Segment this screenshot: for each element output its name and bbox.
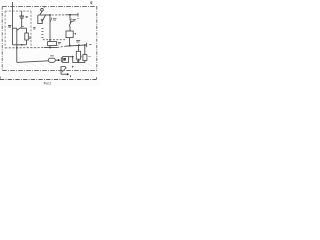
node (dot x=69.8 on bus) <box>69 45 71 47</box>
wire (vertical x=16.8) <box>16 28 18 44</box>
label a (near switch S1) <box>22 26 24 28</box>
main bus line (solid right portion) <box>66 45 87 46</box>
lower dash-dot rule (second figure edge) <box>0 79 96 81</box>
label right of tick <box>89 44 91 46</box>
node (dot x=84.8 on bus) <box>84 44 86 46</box>
terminal tick (x=78) <box>77 13 79 17</box>
wire (x=70 into relay box) <box>69 26 71 31</box>
wire (mic to node) <box>55 59 58 61</box>
wire (top, y=15 to node) <box>38 14 50 16</box>
wire (vertical x=50 down to box) <box>49 15 51 41</box>
label 2b.1 text <box>72 20 75 21</box>
label b2 (right of blade K2) <box>72 21 74 23</box>
main bus line (solid under box 24a) <box>44 46 57 48</box>
label 1b2 (left of linkage) <box>33 28 35 29</box>
wire (x=72.7 down) <box>72 57 74 63</box>
capacitor curved plate <box>60 57 63 62</box>
bottom wire (sloped, from x=16.8 corner to mic) <box>17 61 49 63</box>
microphone top marks <box>50 55 53 57</box>
resistor R1 body <box>25 33 29 40</box>
earpiece box body <box>63 57 69 63</box>
capacitor C1 lead <box>21 11 23 16</box>
terminal tick right (x=86.7) <box>86 43 88 48</box>
wire (earpiece to node, y=56.7) <box>69 56 73 58</box>
border right (dash-dot) <box>96 7 98 71</box>
switch blade K2 (vertical branch x=70) <box>69 15 71 20</box>
box 24a body <box>48 42 57 46</box>
node (dot x=72.7 y=56.7) <box>72 56 74 58</box>
label 2a text <box>53 19 57 20</box>
node B (dot x=70 y=14.8) <box>69 14 71 16</box>
contact K1 circle (top middle) <box>41 8 44 11</box>
relay box right mark <box>74 33 76 35</box>
linkage line (dashed horizontal y=39.6) <box>43 39 66 41</box>
label a.1 (near tick) <box>77 17 79 19</box>
relay coil box 2 body <box>66 31 73 38</box>
border top (dash-dot) <box>2 6 97 8</box>
label 1a (right of capacitor) <box>26 16 28 17</box>
node (dot x=78.8 on bus) <box>78 44 80 46</box>
border bottom (dash-dot) <box>2 69 97 71</box>
switch blade S1 <box>17 28 21 31</box>
capacitor C1 lower lead <box>21 19 23 28</box>
switch blade K1 <box>40 11 42 15</box>
transistor Q1 body frame <box>38 15 42 24</box>
svg-text:Фиг.2: Фиг.2 <box>44 82 52 86</box>
linkage line (dashed vertical x=42.3) <box>41 29 43 38</box>
figure label top-right <box>90 2 92 4</box>
label 2b.1 (above right wire) <box>76 41 80 42</box>
bottom bus right (y=62.6) <box>73 62 85 64</box>
label 10 (right of resistor R1) <box>29 37 31 38</box>
node (dot at x=50 y=39.7 linkage crossing) <box>49 39 51 41</box>
main bus line (dashed left portion) <box>5 47 44 49</box>
left edge mark <box>0 77 1 79</box>
dashed enclosure 1 (left inner box) <box>5 10 31 12</box>
resistor R2 top lead <box>78 45 80 51</box>
border left (dash-dot) <box>1 7 3 71</box>
label b (above contact K1) <box>43 6 45 8</box>
resistor R1 bottom lead <box>26 40 28 45</box>
label 1c (inside Q1 frame) <box>41 19 43 20</box>
box 24a stub to bus <box>49 46 51 48</box>
wire (x=16.8 down to bottom wire) <box>16 45 18 63</box>
wire (bottom of left cell, y=44.8) <box>13 44 27 46</box>
capacitor C1 plates <box>19 15 24 17</box>
wire (solid, to right tick) <box>65 14 78 16</box>
label below R2 <box>77 60 80 61</box>
handwritten mark (bottom right of figure) <box>61 67 66 75</box>
wire (dashed, y=14.9) <box>52 14 66 16</box>
resistor R1 top lead <box>26 28 28 33</box>
box 2d bottom lead <box>84 60 86 62</box>
wire (y=28.2 to resistor branch) <box>21 27 27 29</box>
label 2e (below-left of label 24a) <box>56 44 58 46</box>
earpiece dark core <box>63 58 66 61</box>
node (dot on y=44.8 wire) <box>21 44 23 46</box>
input wire (vertical, x=12.5) <box>12 2 14 45</box>
relay box bottom lead <box>69 38 71 46</box>
label right of box 2d <box>88 56 91 58</box>
node (dot x=50 on bus) <box>49 47 51 49</box>
box 2d top lead <box>84 45 86 55</box>
label 1b (left, above transistor area) <box>8 26 11 27</box>
resistor R2 bottom lead <box>78 59 80 62</box>
transistor Q1 emitter diagonal <box>42 14 46 21</box>
main bus line (dashed mid portion) <box>57 46 65 47</box>
node A (dot x=50 y=15) <box>49 14 51 16</box>
label 2a leader <box>50 17 52 21</box>
label 2b leader <box>70 19 72 23</box>
node (dot x=58.6 y=60.1) <box>58 59 60 61</box>
label 24a (right of box) <box>58 43 61 44</box>
node (dot bus x=16.8) <box>16 47 18 49</box>
resistor R2 body <box>76 51 80 59</box>
lower rule hook <box>95 77 97 79</box>
box 2d body <box>83 55 87 61</box>
wire (horizontal y=28.2 from input line) <box>13 27 18 29</box>
microphone M body (rounded) <box>48 58 55 62</box>
label left tick of box 2d <box>81 56 83 58</box>
